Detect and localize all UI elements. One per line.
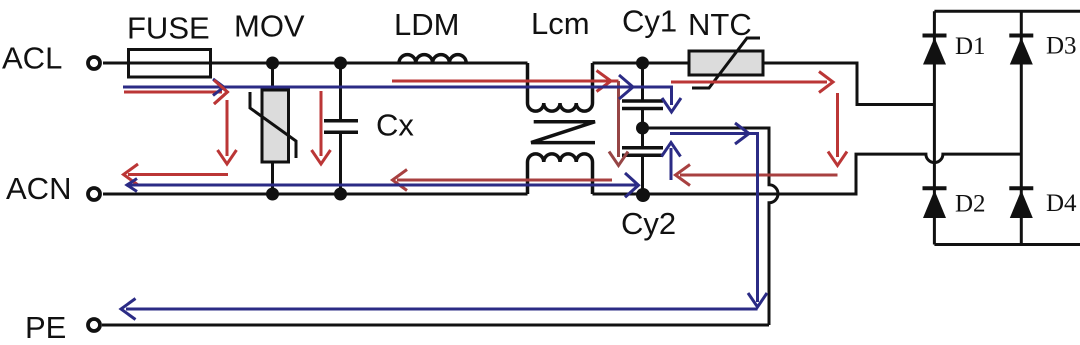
node dot ACN-MOV — [266, 188, 279, 201]
wire ACN after Lcm to bridge with dip under left rail — [593, 154, 1022, 194]
wire ACN bottom line — [103, 193, 528, 196]
red flow arrow right after NTC — [671, 72, 833, 93]
svg-text:D2: D2 — [955, 191, 986, 218]
capacitor Cx plates — [324, 121, 358, 133]
wire PE line — [102, 324, 769, 327]
node dot ACL-Cy1 — [636, 57, 649, 70]
red flow arrow down before Cy1 — [609, 81, 628, 166]
node dot ACL-MOV — [266, 57, 279, 70]
bridge right rail — [1020, 11, 1023, 244]
capacitor Cy2 plates — [622, 148, 663, 155]
blue flow line ACL side with arrows — [123, 75, 681, 112]
diode D3 — [1009, 36, 1033, 65]
MOV varistor stroke — [250, 92, 296, 158]
choke Lcm core Z symbol — [531, 122, 595, 143]
capacitor Cy1 lead top — [641, 63, 644, 101]
capacitor Cx lead top — [339, 63, 342, 120]
svg-text:LDM: LDM — [394, 7, 459, 42]
capacitor Cy1 plates — [622, 101, 663, 109]
svg-text:Cx: Cx — [376, 108, 414, 143]
node dot ACN-Cy2 — [636, 188, 650, 202]
svg-text:Cy2: Cy2 — [621, 206, 676, 241]
red flow arrow down right side — [828, 93, 847, 166]
svg-text:Cy1: Cy1 — [622, 4, 677, 39]
MOV body — [262, 90, 289, 162]
svg-text:Lcm: Lcm — [531, 6, 590, 41]
diode D2 — [923, 188, 947, 218]
capacitor Cy2 lead top — [641, 128, 644, 148]
thermistor NTC body — [689, 51, 763, 75]
choke Lcm upper winding — [528, 63, 593, 111]
capacitor Cx lead bottom — [339, 133, 342, 194]
svg-text:D1: D1 — [955, 33, 986, 60]
svg-text:D3: D3 — [1046, 33, 1077, 60]
inductor LDM — [399, 55, 466, 63]
terminal ACL — [88, 57, 100, 69]
svg-text:PE: PE — [25, 310, 66, 345]
choke Lcm lower winding — [528, 154, 593, 194]
terminal ACN — [88, 188, 100, 200]
wire ACL top line — [103, 62, 528, 65]
svg-text:ACN: ACN — [6, 171, 71, 206]
svg-text:D4: D4 — [1046, 190, 1077, 217]
red flow arrow top toward Lcm — [392, 71, 619, 92]
svg-text:FUSE: FUSE — [127, 11, 210, 46]
node dot Cy1-Cy2 mid — [636, 122, 649, 135]
svg-text:MOV: MOV — [234, 9, 305, 44]
diode D1 — [923, 36, 947, 65]
node dot ACL-Cx — [334, 57, 347, 70]
MOV lead bottom — [271, 162, 274, 194]
red flow arrow left return to Cy2 — [676, 165, 838, 186]
red flow arrow under fuse — [124, 80, 227, 104]
thermistor NTC stroke — [692, 38, 760, 88]
capacitor Cy2 lead bottom — [641, 155, 644, 194]
red flow arrow left above ACN — [124, 164, 229, 185]
blue flow arrow up through Cy2 — [662, 143, 681, 181]
node dot ACN-Cx — [334, 188, 347, 201]
MOV lead top — [271, 63, 274, 90]
wire mid node to PE with hop over ACN — [643, 128, 779, 325]
bridge left rail — [933, 11, 936, 244]
diode D4 — [1009, 188, 1033, 218]
svg-text:ACL: ACL — [2, 41, 62, 76]
blue flow mid wire to PE drop — [670, 123, 767, 307]
fuse F1 body — [129, 50, 211, 78]
bridge bottom output wire — [934, 243, 1080, 246]
svg-text:NTC: NTC — [688, 7, 752, 42]
red flow arrow under fuse head overdraw — [214, 80, 227, 104]
terminal PE — [88, 319, 100, 331]
red flow arrow down right of MOV — [312, 91, 331, 164]
red flow arrow left above ACN mid — [393, 170, 613, 191]
capacitor Cy1 lead bottom — [641, 109, 644, 129]
wire top after Lcm to bridge — [593, 63, 935, 105]
blue flow line PE return — [121, 299, 758, 320]
blue flow line ACN side toward Cy2 — [127, 173, 639, 197]
bridge top output wire — [934, 10, 1080, 13]
red flow arrow down left of MOV — [218, 100, 237, 164]
